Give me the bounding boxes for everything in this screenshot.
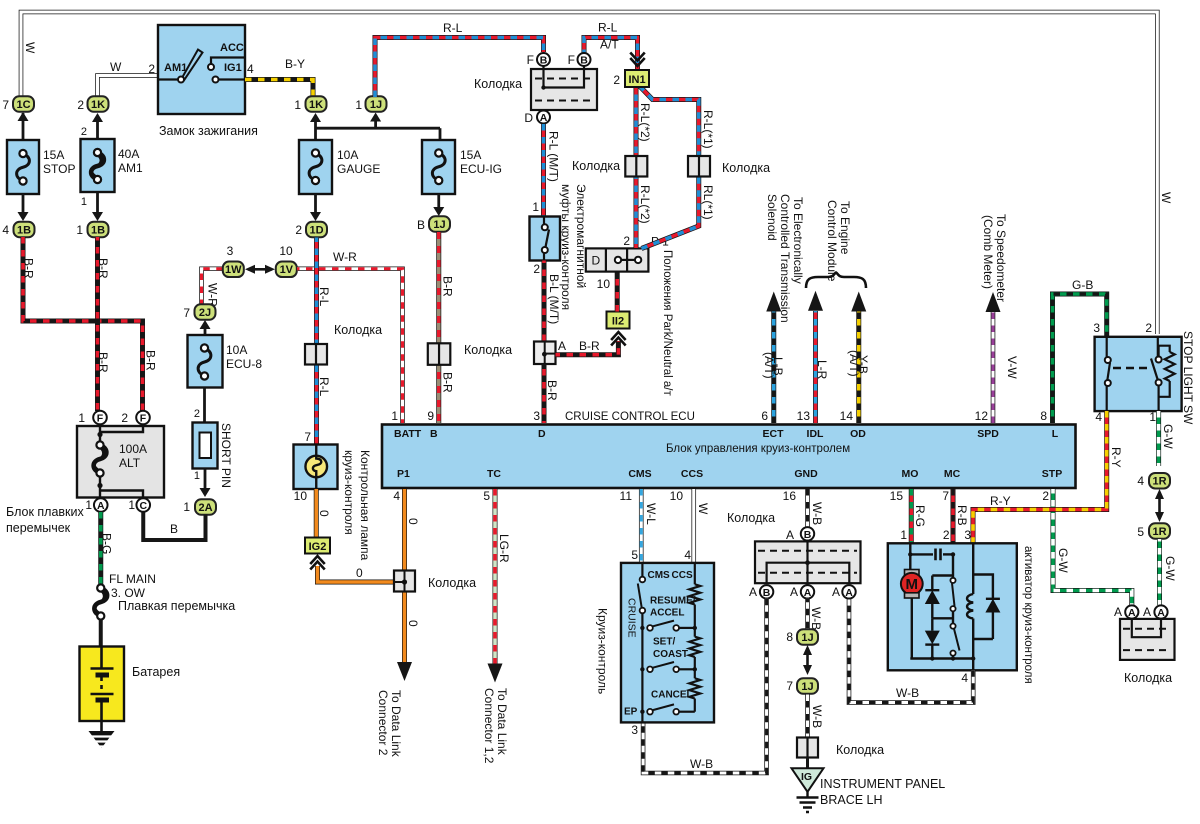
svg-text:1K: 1K bbox=[91, 99, 105, 111]
svg-text:A: A bbox=[790, 585, 798, 599]
svg-text:4: 4 bbox=[2, 223, 9, 237]
svg-text:B-R: B-R bbox=[441, 372, 455, 393]
svg-text:4: 4 bbox=[393, 489, 400, 503]
wire G-W from stop light switch pin 1 to 1R bbox=[1156, 411, 1161, 466]
svg-text:1: 1 bbox=[78, 411, 85, 425]
svg-text:0: 0 bbox=[406, 518, 420, 525]
double arrow between 1W and 1V bbox=[248, 268, 272, 271]
svg-text:B: B bbox=[430, 428, 438, 440]
svg-text:8: 8 bbox=[1040, 409, 1047, 423]
actuator diode rail top bbox=[932, 574, 953, 576]
svg-text:B: B bbox=[170, 522, 178, 536]
cruise control indicator lamp box bbox=[294, 445, 338, 490]
svg-text:1: 1 bbox=[194, 470, 200, 482]
svg-text:V-W: V-W bbox=[1005, 356, 1019, 379]
svg-text:1B: 1B bbox=[91, 224, 105, 236]
svg-text:B-R: B-R bbox=[579, 339, 600, 353]
svg-text:G-W: G-W bbox=[1161, 424, 1175, 449]
svg-text:1: 1 bbox=[183, 500, 190, 514]
connector IG2 bbox=[305, 538, 330, 554]
lamp bulb bbox=[305, 456, 327, 478]
svg-text:AM1: AM1 bbox=[118, 161, 143, 175]
svg-text:2: 2 bbox=[943, 528, 950, 542]
wire W-L from ECU CMS to cruise switch pin 5 bbox=[639, 489, 644, 562]
svg-text:0: 0 bbox=[406, 620, 420, 627]
svg-text:2: 2 bbox=[1145, 321, 1152, 335]
wire R-Y from stop light switch pin 4 to actuator pin 3 bbox=[973, 411, 1107, 544]
svg-text:W: W bbox=[110, 60, 122, 74]
svg-text:To Electronically: To Electronically bbox=[791, 197, 805, 284]
wire fuse AM1 to 1K bbox=[96, 122, 99, 139]
wire to ground IG bbox=[806, 758, 809, 769]
svg-text:R-Y: R-Y bbox=[990, 494, 1011, 508]
svg-text:A: A bbox=[1114, 605, 1122, 619]
actuator switch contacts bbox=[952, 554, 954, 578]
svg-text:1: 1 bbox=[85, 498, 92, 512]
fuse 10A ECU-8 bbox=[188, 335, 223, 388]
svg-text:COAST: COAST bbox=[653, 649, 688, 660]
wire B-G from ALT terminal A to fusible link FL MAIN bbox=[98, 512, 103, 584]
svg-text:CANCEL: CANCEL bbox=[651, 690, 693, 701]
svg-text:3: 3 bbox=[533, 409, 540, 423]
ignition contact IG1 bbox=[213, 77, 219, 83]
wire O from lamp to IG2 bbox=[314, 489, 319, 538]
svg-text:(А/Т): (А/Т) bbox=[847, 350, 861, 377]
fuse 10A GAUGE bbox=[299, 140, 332, 194]
svg-text:7: 7 bbox=[942, 489, 949, 503]
svg-text:LG-R: LG-R bbox=[497, 534, 511, 563]
svg-text:B-G: B-G bbox=[100, 533, 114, 554]
wire LG-R from ECU TC to data link connector bbox=[493, 489, 498, 665]
ignition contact ACC bbox=[208, 64, 214, 70]
svg-text:1J: 1J bbox=[433, 219, 445, 231]
wire L-R to engine control module bbox=[813, 311, 818, 423]
svg-text:R-G: R-G bbox=[913, 505, 927, 527]
wire G-B from ECU pin L to stop light switch pin 3 bbox=[1053, 294, 1107, 423]
svg-text:4: 4 bbox=[961, 671, 968, 685]
svg-text:L: L bbox=[1052, 428, 1059, 440]
wire R-L A/T from junction connector to IN1 bbox=[584, 38, 638, 70]
svg-text:Connector 1,2: Connector 1,2 bbox=[482, 688, 496, 764]
svg-text:A: A bbox=[749, 585, 757, 599]
svg-text:RESUME/: RESUME/ bbox=[650, 596, 696, 607]
svg-text:Connector 2: Connector 2 bbox=[376, 690, 390, 756]
SHORT PIN box bbox=[193, 423, 218, 469]
svg-text:1D: 1D bbox=[309, 224, 323, 236]
mechanical link dashed bbox=[1113, 367, 1148, 369]
svg-text:F: F bbox=[568, 53, 575, 67]
svg-text:MO: MO bbox=[902, 468, 919, 480]
svg-text:II2: II2 bbox=[612, 316, 624, 328]
svg-text:D: D bbox=[538, 428, 546, 440]
wire 1C to fuse STOP bbox=[22, 113, 25, 141]
svg-text:7: 7 bbox=[786, 679, 793, 693]
svg-text:10: 10 bbox=[294, 489, 308, 503]
svg-text:Колодка: Колодка bbox=[474, 77, 522, 91]
svg-text:Колодка: Колодка bbox=[722, 161, 770, 175]
svg-text:G-W: G-W bbox=[1163, 556, 1177, 581]
fuse 100A ALT internals bbox=[99, 425, 101, 442]
svg-text:W-B: W-B bbox=[690, 757, 713, 771]
svg-text:B: B bbox=[763, 587, 771, 599]
svg-text:W: W bbox=[1159, 192, 1173, 204]
svg-text:W-B: W-B bbox=[809, 607, 823, 630]
Park/Neutral position switch box bbox=[586, 248, 649, 271]
svg-text:10A: 10A bbox=[337, 148, 358, 162]
stop light switch right contact bbox=[1157, 337, 1159, 357]
svg-text:1: 1 bbox=[76, 223, 83, 237]
cruise control ECU box bbox=[382, 425, 1076, 489]
svg-text:OD: OD bbox=[850, 428, 866, 440]
svg-text:1: 1 bbox=[1149, 410, 1156, 424]
svg-text:1: 1 bbox=[81, 196, 87, 208]
svg-text:W-B: W-B bbox=[810, 705, 824, 728]
wire W from ECU CCS to cruise switch pin 4 bbox=[691, 489, 696, 562]
svg-text:1J: 1J bbox=[801, 632, 813, 644]
svg-text:ACCEL: ACCEL bbox=[650, 608, 684, 619]
svg-text:2: 2 bbox=[121, 411, 128, 425]
svg-text:1J: 1J bbox=[801, 681, 813, 693]
svg-text:Контрольная лампа: Контрольная лампа bbox=[358, 450, 372, 561]
svg-text:A: A bbox=[1143, 605, 1151, 619]
connector II2 bbox=[607, 312, 630, 329]
wire FL MAIN to battery bbox=[99, 620, 103, 648]
actuator diode 2 bbox=[931, 618, 933, 630]
resume accel switch bbox=[640, 626, 644, 630]
svg-text:Колодка: Колодка bbox=[1124, 671, 1172, 685]
svg-text:ACC: ACC bbox=[220, 42, 244, 54]
svg-text:3: 3 bbox=[1093, 321, 1100, 335]
svg-text:Колодка: Колодка bbox=[464, 343, 512, 357]
svg-text:15A: 15A bbox=[43, 148, 64, 162]
svg-text:1R: 1R bbox=[1152, 476, 1166, 488]
svg-text:4: 4 bbox=[247, 62, 254, 76]
svg-text:D: D bbox=[592, 254, 601, 268]
svg-text:A: A bbox=[804, 587, 812, 599]
svg-text:R-L: R-L bbox=[443, 21, 463, 35]
wire G-W from ECU STP down to right Колодка bbox=[1053, 489, 1132, 605]
svg-text:2: 2 bbox=[613, 73, 620, 87]
svg-text:активатор круиз-контроля: активатор круиз-контроля bbox=[1022, 546, 1034, 684]
bottom right connector Колодка bbox=[1120, 619, 1175, 660]
svg-text:A: A bbox=[540, 112, 548, 124]
svg-text:To Data Link: To Data Link bbox=[495, 688, 509, 756]
connector Колодка on O wire bbox=[394, 571, 415, 592]
svg-text:(А/Т): (А/Т) bbox=[762, 352, 776, 379]
wire B-R from connector 1J pin B down to ECU pin 9 bbox=[436, 232, 441, 423]
svg-text:EP: EP bbox=[624, 707, 638, 718]
svg-text:W-B: W-B bbox=[896, 686, 919, 700]
cancel switch bbox=[640, 710, 644, 714]
svg-text:IG1: IG1 bbox=[224, 62, 242, 74]
connector Колодка on R-L(*1) bbox=[688, 156, 710, 177]
svg-text:W: W bbox=[23, 42, 37, 54]
svg-text:F: F bbox=[527, 53, 534, 67]
svg-text:1K: 1K bbox=[309, 99, 323, 111]
cruise actuator box bbox=[888, 543, 1017, 670]
brace To Engine Control Module bbox=[806, 273, 866, 289]
junction connector block Колодка with terminals F-B F-B D-A bbox=[531, 69, 597, 110]
set coast switch bbox=[640, 667, 644, 671]
chevron connector mark above IN1 bbox=[630, 58, 645, 66]
clutch contact bbox=[542, 224, 548, 230]
svg-text:Колодка: Колодка bbox=[727, 511, 775, 525]
svg-text:1: 1 bbox=[391, 409, 398, 423]
connector Колодка on R-L wire bbox=[305, 344, 327, 365]
svg-text:8: 8 bbox=[786, 630, 793, 644]
wire L-B to transmission solenoid bbox=[771, 311, 776, 423]
svg-text:2: 2 bbox=[623, 234, 630, 248]
wire fuse AM1 to 1B bbox=[96, 193, 99, 213]
connector IN1 bbox=[625, 70, 649, 87]
svg-text:Положения Park/Neutral а/т: Положения Park/Neutral а/т bbox=[661, 250, 673, 396]
svg-text:100A: 100A bbox=[119, 442, 147, 456]
wire B-R from 1B pin4 down and right to ALT terminal 2F bbox=[23, 237, 143, 411]
battery bbox=[80, 647, 125, 722]
wire W from 1K to ignition switch AM1 bbox=[98, 76, 160, 98]
actuator solenoid bottom rail bbox=[973, 638, 993, 640]
svg-text:STOP LIGHT SW: STOP LIGHT SW bbox=[1181, 331, 1195, 425]
svg-text:STOP: STOP bbox=[43, 162, 75, 176]
svg-text:To Speedometer: To Speedometer bbox=[994, 214, 1008, 302]
svg-text:1: 1 bbox=[900, 528, 907, 542]
svg-text:A: A bbox=[845, 587, 853, 599]
svg-text:Круиз-контроль: Круиз-контроль bbox=[596, 608, 610, 694]
svg-text:Блок управления круиз-контроле: Блок управления круиз-контролем bbox=[666, 443, 850, 455]
svg-text:B-R: B-R bbox=[96, 258, 110, 279]
svg-text:B-R: B-R bbox=[441, 276, 455, 297]
actuator bottom rail bbox=[910, 657, 973, 659]
svg-text:7: 7 bbox=[2, 98, 9, 112]
fusible link FL MAIN bbox=[94, 588, 107, 616]
wire B-R from Park/Neutral pin 10 to II2 bbox=[615, 272, 620, 312]
wire W-B from 1J pin 7 to Колодка bbox=[805, 694, 810, 737]
svg-text:R-L(*2): R-L(*2) bbox=[638, 185, 652, 224]
svg-text:R-L: R-L bbox=[598, 21, 618, 35]
svg-text:B-Y: B-Y bbox=[285, 57, 305, 71]
wire R-L from 1D down to indicator lamp bbox=[314, 238, 319, 445]
svg-text:ECT: ECT bbox=[763, 428, 785, 440]
svg-text:CMS: CMS bbox=[628, 468, 651, 480]
svg-text:R-L: R-L bbox=[317, 377, 331, 397]
wire W-B from ECU GND to junction connector B bbox=[805, 489, 810, 527]
svg-text:W: W bbox=[696, 503, 710, 515]
svg-text:TC: TC bbox=[487, 468, 501, 480]
svg-text:1R: 1R bbox=[1152, 526, 1166, 538]
svg-text:INSTRUMENT PANEL: INSTRUMENT PANEL bbox=[820, 777, 945, 791]
svg-text:RL(*1): RL(*1) bbox=[701, 185, 715, 220]
ground IG instrument panel brace bbox=[792, 768, 824, 792]
svg-text:C: C bbox=[139, 500, 147, 512]
svg-text:ECU-8: ECU-8 bbox=[226, 357, 262, 371]
wire W-R from 2J up to 1W bbox=[202, 269, 224, 306]
stop light switch box bbox=[1095, 337, 1182, 411]
svg-text:Блок плавких: Блок плавких bbox=[6, 505, 84, 519]
svg-text:W-L: W-L bbox=[644, 503, 658, 525]
wire O from IG2 to Колодка junction bbox=[318, 566, 396, 582]
svg-text:B-R: B-R bbox=[545, 380, 559, 401]
svg-text:6: 6 bbox=[761, 409, 768, 423]
svg-text:15: 15 bbox=[890, 489, 904, 503]
svg-text:W-R: W-R bbox=[333, 250, 357, 264]
svg-text:Колодка: Колодка bbox=[836, 743, 884, 757]
svg-text:B-R: B-R bbox=[144, 350, 158, 371]
actuator solenoid branch bbox=[972, 543, 974, 594]
svg-text:10: 10 bbox=[279, 244, 293, 258]
svg-text:A: A bbox=[97, 500, 105, 512]
wire fuse ECU-8 to SHORT PIN bbox=[203, 388, 206, 423]
connector Колодка on R-L(*2) bbox=[625, 156, 647, 177]
connector Колодка on B-R wire bbox=[428, 343, 451, 365]
svg-text:A: A bbox=[1128, 607, 1136, 619]
svg-text:D: D bbox=[524, 111, 533, 125]
battery ground symbol bbox=[100, 721, 103, 731]
svg-text:SET/: SET/ bbox=[653, 637, 675, 648]
svg-text:SPD: SPD bbox=[977, 428, 999, 440]
svg-text:1C: 1C bbox=[16, 99, 30, 111]
actuator solenoid coil bbox=[967, 594, 973, 619]
svg-text:12: 12 bbox=[975, 409, 989, 423]
svg-text:Колодка: Колодка bbox=[428, 576, 476, 590]
svg-text:R-L (М/Т): R-L (М/Т) bbox=[547, 131, 561, 182]
wire G-W from 1R pin 5 down to Колодка bbox=[1157, 539, 1162, 605]
connector Колодка before ground bbox=[797, 738, 818, 758]
svg-text:(Comb Meter): (Comb Meter) bbox=[981, 215, 995, 289]
svg-text:GAUGE: GAUGE bbox=[337, 162, 380, 176]
svg-text:G-B: G-B bbox=[1072, 278, 1093, 292]
svg-text:B-L (М/Т): B-L (М/Т) bbox=[547, 274, 561, 324]
svg-text:5: 5 bbox=[1137, 525, 1144, 539]
cruise control switch box bbox=[621, 563, 714, 723]
svg-text:15A: 15A bbox=[460, 148, 481, 162]
svg-text:перемычек: перемычек bbox=[6, 521, 71, 535]
svg-text:F: F bbox=[140, 413, 147, 425]
wire R-B from ECU MC to actuator pin 2 bbox=[951, 489, 956, 544]
svg-text:CRUISE CONTROL ECU: CRUISE CONTROL ECU bbox=[565, 411, 695, 423]
svg-text:10: 10 bbox=[670, 489, 684, 503]
wire SHORT PIN to 2A bbox=[204, 469, 207, 490]
svg-text:5: 5 bbox=[483, 489, 490, 503]
svg-text:IG2: IG2 bbox=[309, 541, 327, 553]
svg-text:R-L: R-L bbox=[317, 287, 331, 307]
svg-text:Controlled Transmission: Controlled Transmission bbox=[778, 194, 792, 323]
wire fuse GAUGE to 1D bbox=[314, 194, 317, 212]
svg-text:G-W: G-W bbox=[1056, 548, 1070, 573]
wire R-L M/T from terminal A to clutch bbox=[541, 124, 546, 217]
wire fuse ECU-8 to 2J bbox=[204, 328, 207, 335]
svg-text:MC: MC bbox=[944, 468, 961, 480]
svg-text:CCS: CCS bbox=[681, 468, 703, 480]
svg-text:7: 7 bbox=[304, 430, 311, 444]
double arrow between 1J connectors bbox=[806, 648, 809, 672]
svg-text:2: 2 bbox=[1042, 489, 1049, 503]
double arrow between 1R connectors bbox=[1158, 492, 1161, 519]
ignition switch box bbox=[158, 25, 245, 114]
fuse 40A AM1 bbox=[81, 139, 115, 192]
svg-text:4: 4 bbox=[1137, 474, 1144, 488]
svg-text:AM1: AM1 bbox=[164, 62, 187, 74]
svg-text:R-B: R-B bbox=[955, 505, 969, 526]
fuse 15A STOP bbox=[7, 140, 39, 194]
svg-text:GND: GND bbox=[794, 468, 818, 480]
svg-text:CCS: CCS bbox=[672, 570, 693, 581]
resistor 1 bbox=[694, 563, 696, 584]
svg-text:Колодка: Колодка bbox=[334, 323, 382, 337]
resistor 2 bbox=[689, 637, 700, 657]
svg-text:M: M bbox=[906, 576, 919, 593]
svg-text:1: 1 bbox=[294, 98, 301, 112]
svg-text:B: B bbox=[580, 55, 588, 67]
actuator motor M bbox=[905, 570, 920, 575]
svg-text:A/T: A/T bbox=[600, 38, 619, 52]
wire W-B from junction A to 1J pin 8 bbox=[805, 599, 810, 629]
svg-text:3. OW: 3. OW bbox=[111, 586, 146, 600]
resistor 3 bbox=[689, 678, 700, 698]
wire W-R from 1V to ECU pin 1 BATT bbox=[297, 269, 403, 423]
svg-text:A: A bbox=[1157, 607, 1165, 619]
svg-text:W-B: W-B bbox=[810, 502, 824, 525]
wire W from connector 1C along top border to stop light switch pin 2 bbox=[21, 12, 1157, 334]
svg-text:IDL: IDL bbox=[807, 428, 825, 440]
svg-text:круиз-контроля: круиз-контроля bbox=[342, 450, 356, 535]
actuator diode middle rail bbox=[932, 617, 953, 619]
svg-text:R-Y: R-Y bbox=[1109, 447, 1123, 468]
svg-text:To Data Link: To Data Link bbox=[389, 690, 403, 758]
junction connector Колодка bbox=[755, 541, 861, 583]
svg-text:FL MAIN: FL MAIN bbox=[109, 572, 156, 586]
svg-text:1: 1 bbox=[532, 200, 539, 214]
svg-text:1J: 1J bbox=[370, 99, 382, 111]
actuator diode 1 bbox=[925, 589, 939, 591]
svg-text:R-L(*2): R-L(*2) bbox=[638, 103, 652, 142]
svg-text:STP: STP bbox=[1042, 468, 1062, 480]
svg-text:CMS: CMS bbox=[648, 570, 671, 581]
fuse 15A ECU-IG bbox=[422, 140, 455, 194]
wire W-B from actuator pin 4 to junction connector bbox=[849, 599, 973, 703]
svg-text:4: 4 bbox=[684, 548, 691, 562]
svg-text:0: 0 bbox=[356, 566, 363, 580]
svg-text:To Engine: To Engine bbox=[838, 201, 852, 255]
svg-text:CRUISE: CRUISE bbox=[626, 598, 638, 638]
svg-text:2: 2 bbox=[77, 98, 84, 112]
wire W-B from junction B to cruise switch EP pin 3 bbox=[643, 599, 767, 773]
svg-text:2J: 2J bbox=[199, 307, 211, 319]
svg-text:10: 10 bbox=[597, 277, 611, 291]
wire R-L(*2) from IN1 to Park/Neutral pin 2 bbox=[634, 87, 639, 249]
ignition switch lever AM1 bbox=[183, 50, 203, 80]
stop light switch resistor bbox=[1159, 346, 1170, 357]
svg-text:BATT: BATT bbox=[394, 428, 422, 440]
svg-text:3: 3 bbox=[964, 528, 971, 542]
wire B-R from connector A down to ECU pin D bbox=[542, 364, 547, 423]
svg-text:SHORT PIN: SHORT PIN bbox=[219, 423, 233, 488]
svg-text:0: 0 bbox=[317, 510, 331, 517]
svg-text:P1: P1 bbox=[397, 468, 410, 480]
svg-text:A: A bbox=[832, 585, 840, 599]
wire B from 2A to ALT terminal 1C bbox=[143, 512, 205, 540]
svg-text:Замок зажигания: Замок зажигания bbox=[159, 124, 258, 138]
svg-text:B: B bbox=[417, 218, 425, 232]
svg-text:2A: 2A bbox=[198, 502, 212, 514]
svg-text:Плавкая перемычка: Плавкая перемычка bbox=[118, 599, 235, 613]
svg-text:Solenoid: Solenoid bbox=[765, 194, 779, 241]
svg-text:B: B bbox=[540, 55, 548, 67]
svg-text:L-R: L-R bbox=[815, 360, 829, 380]
svg-text:ALT: ALT bbox=[119, 456, 141, 470]
svg-text:1W: 1W bbox=[225, 264, 242, 276]
wire R-G from ECU MO to actuator pin 1 bbox=[909, 489, 914, 544]
svg-text:Батарея: Батарея bbox=[132, 665, 180, 679]
